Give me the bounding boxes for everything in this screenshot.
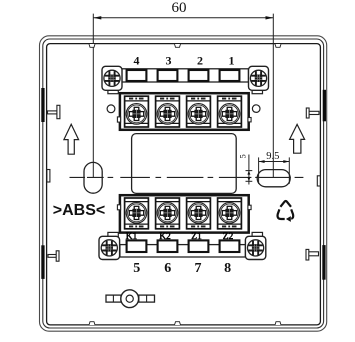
svg-text:K1: K1 xyxy=(126,232,138,242)
svg-text:4: 4 xyxy=(134,53,140,67)
svg-text:3: 3 xyxy=(166,53,172,67)
svg-text:1: 1 xyxy=(229,53,235,67)
svg-text:9.5: 9.5 xyxy=(266,151,279,162)
svg-text:2: 2 xyxy=(197,53,203,67)
svg-text:Z2: Z2 xyxy=(223,232,234,242)
svg-text:8: 8 xyxy=(224,261,231,276)
svg-text:60: 60 xyxy=(172,0,187,16)
svg-text:6: 6 xyxy=(164,261,171,276)
svg-text:7: 7 xyxy=(195,261,202,276)
svg-text:5: 5 xyxy=(133,261,140,276)
svg-text:>ABS<: >ABS< xyxy=(53,202,105,219)
svg-text:Z1: Z1 xyxy=(191,232,202,242)
svg-text:5: 5 xyxy=(238,154,248,158)
svg-text:K2: K2 xyxy=(159,232,171,242)
